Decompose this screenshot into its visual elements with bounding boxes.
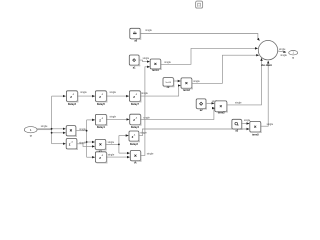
model info icon	[196, 1, 203, 8]
block Delay1 (row F 1)	[95, 114, 107, 128]
block term1 (product)	[150, 59, 161, 72]
svg-text:Delay4: Delay4	[131, 126, 140, 129]
block term5 (product)	[250, 121, 262, 136]
svg-text:single: single	[140, 131, 147, 134]
block Delay7 (row D 3)	[129, 91, 141, 106]
svg-text:single: single	[79, 141, 86, 144]
block a3 (constant)	[232, 119, 243, 132]
block Delay4 (row F 2)	[130, 114, 142, 129]
wire Delay4 -> term2 bottom	[141, 108, 215, 119]
wire Delay1 -> Delay4	[107, 116, 129, 120]
svg-text:single: single	[193, 80, 200, 83]
wire u2 -> column x=86.6	[76, 120, 95, 157]
block term2 (product)	[215, 101, 228, 115]
wire term1 -> sum (left 1)	[161, 48, 258, 64]
wire: input to junction column	[37, 96, 65, 144]
svg-text:single: single	[235, 102, 242, 105]
svg-text:single: single	[145, 29, 152, 32]
wire sum -> out port	[278, 48, 288, 57]
svg-text:single: single	[80, 91, 87, 94]
block c2 (constant value)	[163, 78, 174, 89]
svg-text:single: single	[279, 48, 286, 51]
svg-text:term3: term3	[183, 89, 190, 92]
svg-text:term5: term5	[252, 134, 259, 137]
svg-text:Delay5: Delay5	[97, 103, 106, 106]
svg-text:Delay1: Delay1	[97, 126, 106, 129]
output port Out1 (y)	[289, 51, 298, 60]
wire Delay6 -> K2	[77, 141, 95, 146]
svg-text:single: single	[108, 154, 115, 157]
svg-text:single: single	[280, 54, 287, 57]
block Delay8 (row J)	[95, 152, 107, 164]
block Delay2 (dG)	[129, 131, 140, 146]
wire a1 -> term1	[139, 60, 149, 62]
block tA (product)	[130, 151, 141, 165]
svg-text:Delay3: Delay3	[68, 103, 77, 106]
svg-text:u: u	[30, 134, 32, 138]
wire Delay2 -> term5 bottom (long)	[139, 129, 249, 136]
wire c2 -> term3	[174, 80, 181, 82]
svg-text:single: single	[41, 125, 48, 128]
svg-text:single: single	[79, 128, 86, 131]
wire term2 -> sum (bottom 1)	[227, 58, 262, 105]
wire term3 -> sum (left 2)	[192, 55, 259, 83]
svg-text:term1: term1	[152, 69, 159, 72]
svg-text:single: single	[267, 123, 274, 126]
wire Delay5 -> Delay7	[107, 91, 129, 96]
block a1 (constant)	[129, 55, 140, 70]
block term3 (product)	[181, 78, 193, 92]
wire a2 -> term2	[206, 100, 219, 104]
svg-text:1e-05: 1e-05	[165, 82, 171, 84]
wire a3 -> term5	[242, 119, 251, 123]
svg-text:term2: term2	[218, 111, 225, 114]
svg-text:single: single	[143, 116, 150, 119]
svg-text:single: single	[147, 152, 154, 155]
wire a0 -> sum (top)	[140, 29, 259, 41]
wire term5 -> sum (bottom 2)	[261, 61, 274, 126]
input port In1 (u)	[24, 127, 37, 138]
svg-text:single: single	[110, 91, 117, 94]
block Delay6 (row I)	[66, 139, 78, 150]
wire Delay8 -> tA bottom	[107, 154, 130, 158]
block Delay5 (row D 2)	[95, 91, 107, 106]
wire Delay7 -> term3 bottom	[141, 86, 181, 97]
block a0 (constant)	[130, 28, 141, 42]
svg-text:du dum: du dum	[261, 63, 272, 67]
svg-text:single: single	[143, 57, 150, 60]
sum circle	[258, 41, 277, 67]
block u2 product	[66, 126, 77, 137]
wire K2 -> column x=118.9	[106, 136, 130, 154]
wire tA -> term1 bottom (long vertical)	[141, 67, 154, 156]
svg-text:Delay2: Delay2	[130, 143, 139, 146]
block K2 (product)	[95, 139, 106, 153]
svg-text:single: single	[110, 116, 117, 119]
svg-text:tA: tA	[134, 162, 137, 165]
svg-text:Delay7: Delay7	[131, 103, 140, 106]
svg-text:single: single	[164, 61, 171, 64]
svg-text:single: single	[108, 141, 115, 144]
block a2 (constant)	[196, 99, 207, 112]
block Delay3 (row D 1)	[66, 91, 78, 106]
wire Delay3 -> Delay5	[78, 91, 95, 96]
junction column x=52	[51, 96, 53, 144]
